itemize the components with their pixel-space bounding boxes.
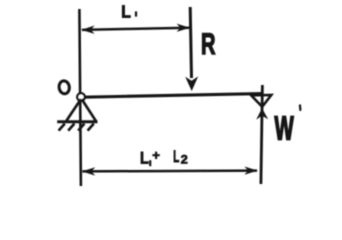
left extension line at x=80 (through pivot O) bbox=[79, 9, 81, 186]
top dimension left arrowhead bbox=[81, 26, 94, 34]
svg-text:R: R bbox=[201, 28, 216, 61]
ground hatch 3 bbox=[78, 124, 84, 131]
label O bbox=[58, 80, 70, 94]
bottom L1 subscript tick bbox=[149, 160, 151, 166]
svg-text:L: L bbox=[140, 148, 149, 167]
label L1 subscript tick bbox=[135, 11, 137, 16]
svg-text:L: L bbox=[173, 148, 179, 166]
svg-text:2: 2 bbox=[181, 154, 188, 166]
top dimension right arrowhead bbox=[177, 24, 190, 32]
ground hatch 1 bbox=[59, 124, 65, 131]
ground hatch 4 bbox=[88, 124, 94, 131]
pivot support triangle bbox=[66, 99, 95, 121]
ground hatch 2 bbox=[68, 124, 74, 131]
force W arrowhead (up) bbox=[256, 108, 268, 119]
dimension line L1+L2 (bottom) bbox=[83, 169, 258, 172]
right extension line at x=261 (through W) bbox=[261, 85, 263, 184]
right knife-edge triangle (apex down) bbox=[251, 95, 271, 107]
bottom dimension right arrowhead bbox=[244, 167, 257, 175]
force R arrowhead (down) bbox=[185, 76, 198, 91]
svg-text:W: W bbox=[275, 109, 295, 146]
svg-text:L: L bbox=[121, 2, 131, 22]
plus sign bbox=[152, 152, 159, 159]
beam (lever) from O to right end bbox=[77, 94, 263, 98]
pivot ground line bbox=[57, 120, 97, 123]
pivot pin circle at O bbox=[77, 93, 85, 101]
prime mark after W bbox=[299, 105, 302, 111]
dimension line L1 (top) bbox=[82, 28, 189, 30]
bottom dimension left arrowhead bbox=[82, 167, 95, 175]
force R line bbox=[190, 7, 191, 78]
